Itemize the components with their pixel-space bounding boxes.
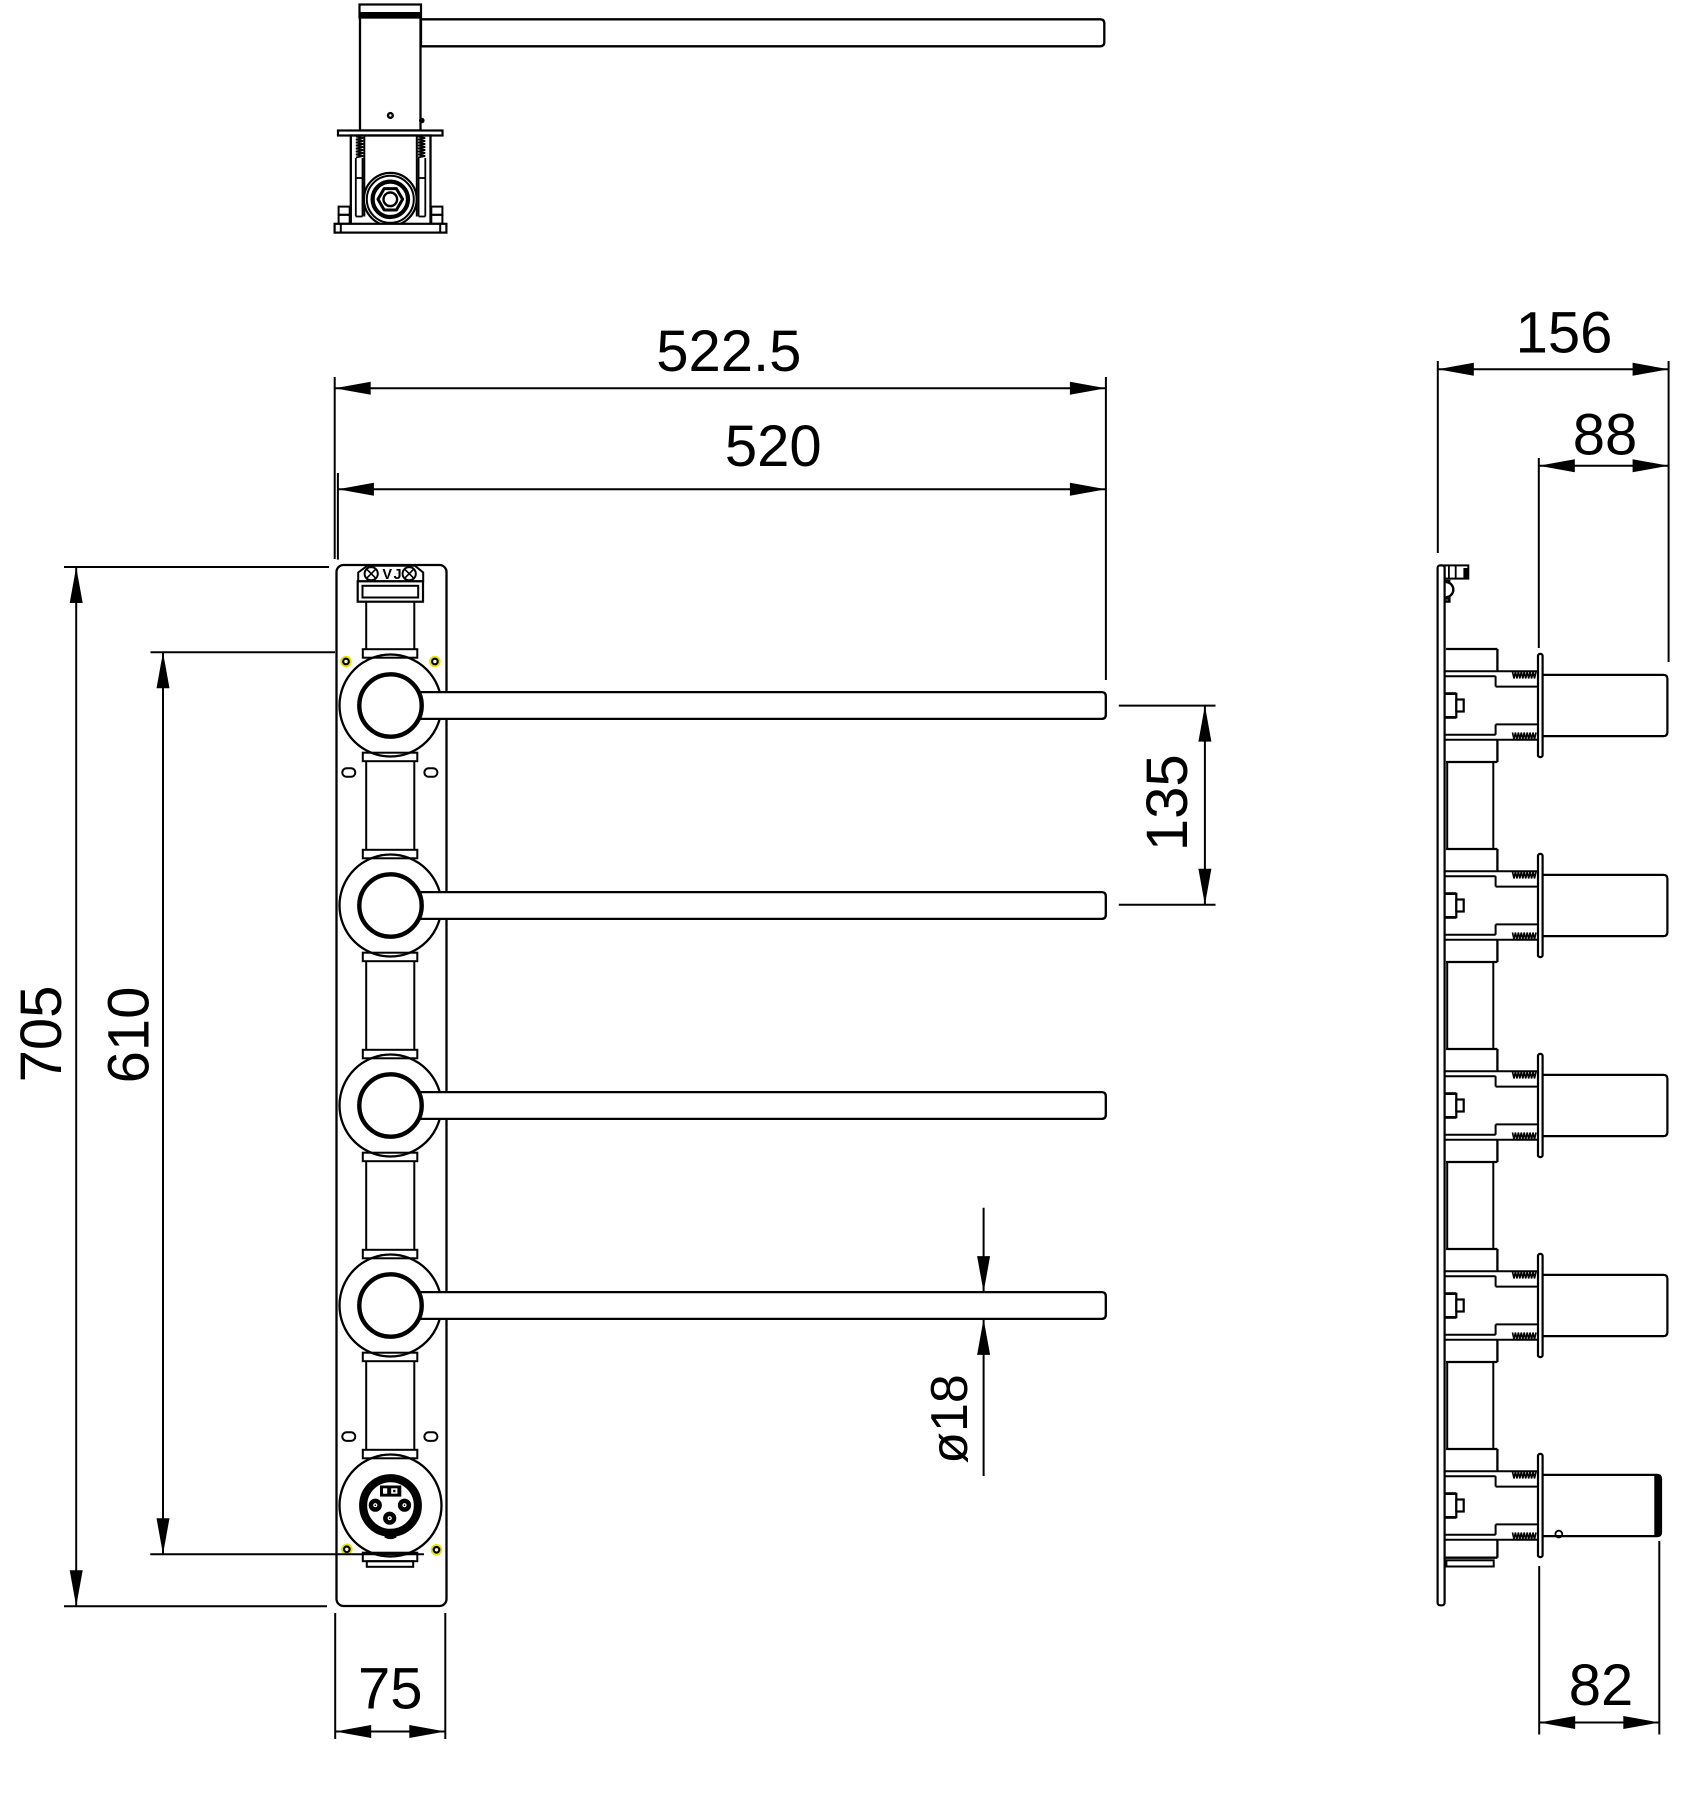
front: towel arm 4 (391, 1292, 1106, 1319)
dimension 156 (side overall) (1437, 361, 1439, 553)
front: connecting channel 4-5 (365, 1361, 367, 1450)
svg-text:135: 135 (1135, 754, 1200, 851)
side: unit 2 bar cylinder (1543, 875, 1668, 936)
side: connector box units 3-4 (1446, 1162, 1448, 1249)
front: cap below socket (363, 1553, 418, 1562)
svg-text:520: 520 (725, 414, 822, 479)
dimension 88 (bar protrusion) (1538, 458, 1540, 648)
top view: swing arm (plan) (421, 19, 1104, 46)
front: socket bottom plate (367, 1561, 413, 1567)
top view: base right tab (431, 207, 442, 215)
front: socket key notch (385, 1534, 397, 1539)
svg-text:610: 610 (97, 987, 162, 1084)
svg-text:ø18: ø18 (921, 1374, 979, 1464)
front: pivot 2 hub (359, 874, 421, 936)
side: unit 1 threaded sleeve (1445, 670, 1538, 672)
svg-text:88: 88 (1573, 403, 1638, 468)
dimension 75 (plate width) (334, 1613, 336, 1739)
dimension 610 (pivot span) (151, 651, 336, 653)
svg-text:156: 156 (1516, 301, 1613, 366)
front: socket pin 2 (right) (398, 1499, 411, 1512)
top view: bearing thick ring (373, 182, 408, 217)
dimension φ18 (arm diameter) (983, 1208, 985, 1292)
side: unit 1 threads (1513, 672, 1537, 679)
front: towel arm 2 (391, 892, 1106, 919)
front: pivot 1 outer ring (340, 655, 442, 757)
front: socket thick ring (362, 1477, 418, 1533)
front: cap below pivot 2 (363, 953, 418, 962)
dimension 82 (socket protrusion) (1538, 1566, 1540, 1735)
front: socket inner ring (366, 1481, 415, 1530)
side: unit 3 bar cylinder (1543, 1075, 1668, 1136)
dimension 520 (arm length) (337, 473, 339, 560)
svg-text:522.5: 522.5 (656, 319, 801, 384)
front: cap below pivot 4 (363, 1353, 418, 1362)
side: unit 3 threaded sleeve (1445, 1070, 1538, 1072)
top view: post side dot (419, 118, 425, 124)
side: unit 4 housing step (1446, 1248, 1497, 1250)
top view: bearing center hole (384, 193, 398, 207)
top view: left rail (363, 136, 365, 217)
side: unit 5 socket cylinder (1543, 1475, 1661, 1536)
front: pivot 4 hub (359, 1274, 421, 1336)
front: cap below pivot 1 (363, 753, 418, 762)
side: unit 3 housing step (1446, 1048, 1497, 1050)
front: oval slot lower left (342, 1432, 355, 1441)
front: connector trapezoid (358, 566, 423, 582)
dimension 522.5 (overall width) (334, 377, 336, 559)
side: unit 5 escutcheon disc (1538, 1454, 1543, 1557)
side view: connector hook (1445, 581, 1454, 602)
top view: post screw dot (387, 112, 394, 119)
dimension 705 (overall height) (64, 566, 329, 568)
svg-text:705: 705 (9, 986, 74, 1083)
front: pivot 3 outer ring (340, 1055, 442, 1157)
front: connecting channel 1-2 (365, 761, 367, 850)
side: unit 4 hex bolt (1445, 1294, 1457, 1317)
side: unit 5 threads (1513, 1472, 1537, 1479)
side: unit 4 threads (1513, 1272, 1537, 1279)
top view: bearing outer circle (364, 173, 417, 226)
front: socket pin 1 (left) (369, 1499, 382, 1512)
front: socket label block (380, 1486, 401, 1497)
front: pivot 1 hub (359, 674, 421, 736)
side view: top connector (1445, 565, 1469, 578)
front: pivot 2 outer ring (340, 855, 442, 957)
front: oval slot lower right (424, 1432, 437, 1441)
front: channel stub above pivot 1 (365, 602, 367, 650)
side: unit 2 housing step (1446, 848, 1497, 850)
side: unit 1 hex bolt (1445, 694, 1457, 717)
side: connector box units 1-2 (1446, 762, 1448, 849)
front: cap above pivot 4 (363, 1250, 418, 1259)
side: unit 1 bar cylinder (1543, 675, 1668, 736)
front: towel arm 1 (391, 692, 1106, 719)
front: connecting channel 2-3 (365, 961, 367, 1050)
front: screw dot bottom right (432, 1545, 442, 1555)
front: oval slot upper left (342, 768, 355, 777)
front: pivot 4 outer ring (340, 1255, 442, 1357)
side: unit 5 hex bolt (1445, 1494, 1457, 1517)
side: unit 5 housing step (1446, 1448, 1497, 1450)
top view: hex nut (378, 189, 403, 210)
side: unit 4 bar cylinder (1543, 1275, 1668, 1336)
side: unit 3 threads (1513, 1072, 1537, 1079)
front: pivot 3 hub (359, 1074, 421, 1136)
top view: mounting flange (338, 131, 443, 136)
side: connector box units 4-5 (1446, 1362, 1448, 1449)
front: screw dot bottom left (342, 1545, 352, 1555)
side: unit 2 hex bolt (1445, 894, 1457, 917)
front: socket outer ring (340, 1455, 442, 1557)
front: connector slot (363, 586, 419, 598)
front: towel arm 3 (391, 1092, 1106, 1119)
front: socket pin 3 (bottom) (383, 1512, 396, 1525)
top view: housing body (351, 136, 431, 225)
side: unit 5 threaded sleeve (1445, 1470, 1538, 1472)
front: connector body (358, 581, 423, 601)
front: cap above pivot 1 (363, 649, 418, 658)
top view: bearing circle 2 (367, 176, 414, 223)
side: unit 4 threaded sleeve (1445, 1270, 1538, 1272)
front: connecting channel 3-4 (365, 1161, 367, 1250)
front: connector screw right (403, 567, 416, 580)
top view: post cap dark band (361, 12, 421, 17)
top view: right spring (418, 137, 425, 158)
side: unit 1 housing step (1446, 648, 1497, 650)
side: unit 2 escutcheon disc (1538, 854, 1543, 957)
front: screw dot top left (341, 657, 351, 667)
front view: wall plate (337, 565, 447, 1606)
front: cap above pivot 2 (363, 850, 418, 859)
side: connector box units 2-3 (1446, 962, 1448, 1049)
svg-text:82: 82 (1569, 1653, 1634, 1718)
side: unit 4 escutcheon disc (1538, 1254, 1543, 1357)
side: unit 3 hex bolt (1445, 1094, 1457, 1117)
front: oval slot upper right (424, 768, 437, 777)
side view: wall plate (1438, 565, 1445, 1605)
side: unit 3 escutcheon disc (1538, 1054, 1543, 1157)
front: screw dot top right (430, 657, 440, 667)
front: cap below pivot 3 (363, 1153, 418, 1162)
top view: base plate (335, 224, 447, 233)
side: unit 2 threaded sleeve (1445, 870, 1538, 872)
front: connector screw left (365, 567, 378, 580)
svg-text:75: 75 (358, 1657, 423, 1722)
top view: post body (360, 18, 421, 131)
side: unit 1 escutcheon disc (1538, 654, 1543, 757)
top view: left spring (356, 137, 363, 158)
front: cap above pivot 5 (363, 1450, 418, 1459)
top view: base left tab (339, 207, 350, 215)
dimension 135 (arm spacing) (1119, 705, 1216, 707)
side: unit 2 threads (1513, 872, 1537, 879)
top view: right rail (416, 136, 418, 217)
top view: wall post cap (360, 5, 422, 18)
front: cap above pivot 3 (363, 1050, 418, 1059)
